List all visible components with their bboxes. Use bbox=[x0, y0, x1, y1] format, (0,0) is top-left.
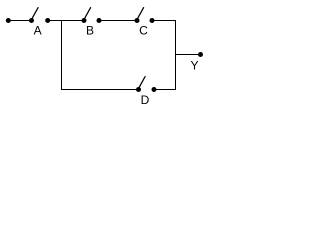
svg-text:B: B bbox=[86, 24, 94, 38]
svg-text:D: D bbox=[141, 93, 150, 107]
svg-text:A: A bbox=[34, 24, 42, 38]
svg-text:Y: Y bbox=[190, 59, 198, 73]
svg-text:C: C bbox=[139, 24, 148, 38]
